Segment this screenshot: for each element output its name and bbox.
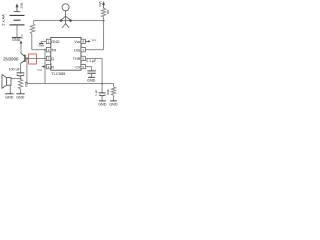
- pin 5 square: [81, 64, 85, 68]
- svg-text:100k: 100k: [106, 89, 110, 96]
- svg-text:Vcc: Vcc: [74, 40, 80, 44]
- node speaker junction: [20, 78, 22, 80]
- pin5 CV wire: [85, 66, 91, 68]
- ground pin1: [39, 43, 43, 45]
- svg-text:GND: GND: [38, 43, 44, 47]
- node TR junction: [44, 49, 46, 51]
- svg-text:GND: GND: [109, 102, 118, 106]
- resistor R1 (left timing resistor): [33, 21, 35, 24]
- bottom rail wire: [27, 83, 114, 85]
- svg-text:Vcc: Vcc: [91, 38, 97, 42]
- svg-text:0.1 µF: 0.1 µF: [86, 59, 96, 63]
- resistor R3 10k: [101, 8, 105, 16]
- svg-text:GND: GND: [5, 96, 14, 100]
- emitter wire up to Vcc arrow: [20, 43, 22, 53]
- node T junction top-right: [103, 20, 105, 22]
- wire base node down to rail: [26, 58, 28, 83]
- wire to speaker: [11, 78, 21, 80]
- svg-text:Q: Q: [51, 57, 54, 61]
- svg-text:R: R: [51, 65, 54, 69]
- svg-text:GND: GND: [51, 40, 60, 44]
- ground C2: [88, 76, 95, 78]
- svg-text:CV: CV: [75, 65, 81, 69]
- svg-text:GND: GND: [12, 38, 21, 42]
- ground R2: [16, 93, 24, 95]
- resistor R4 100k: [113, 84, 115, 87]
- wire R3 down to DIS: [103, 17, 105, 50]
- Vcc arrow top-right: [102, 1, 105, 8]
- svg-text:2N3906: 2N3906: [3, 56, 19, 61]
- pin6 THR wire: [85, 57, 102, 59]
- pin8 arrow to Vcc: [85, 40, 88, 42]
- node contact dot right: [69, 19, 72, 22]
- svg-text:Vcc: Vcc: [20, 34, 24, 40]
- node contact dot left: [60, 19, 63, 22]
- node base junction: [26, 57, 28, 59]
- svg-text:Vcc: Vcc: [37, 68, 43, 72]
- pin 1 square: [46, 39, 50, 43]
- speaker bottom wire to gnd: [9, 85, 11, 94]
- pin4 wire with Vcc arrow: [43, 66, 46, 68]
- svg-text:Vcc: Vcc: [19, 3, 23, 9]
- pin 8 square: [81, 39, 85, 43]
- pin7 DIS wire: [85, 49, 103, 51]
- svg-text:GND: GND: [87, 78, 96, 82]
- svg-text:1 µF: 1 µF: [94, 89, 98, 95]
- pin 4 square: [46, 64, 50, 68]
- speaker SP1: [2, 75, 11, 89]
- pin1 wire to gnd: [41, 40, 46, 42]
- top wire: [34, 20, 104, 22]
- svg-text:Vcc: Vcc: [98, 1, 102, 7]
- pin 3 square: [46, 56, 50, 60]
- ground battery: [12, 37, 21, 39]
- collector wire down: [20, 63, 22, 72]
- wire TR down to rail: [44, 50, 46, 84]
- ground speaker: [5, 93, 13, 95]
- ground R4: [110, 100, 117, 102]
- svg-text:GND: GND: [16, 96, 25, 100]
- pin 2 square: [46, 48, 50, 52]
- pin 7 square: [81, 48, 85, 52]
- pin3 wire Q output: [29, 57, 47, 59]
- resistor R2 (speaker shunt): [20, 78, 22, 81]
- pin2 wire: [32, 49, 47, 51]
- ground C3: [99, 100, 106, 102]
- svg-text:TLC555: TLC555: [51, 71, 66, 76]
- pin 6 square: [81, 56, 85, 60]
- node rail/THR junction: [101, 83, 103, 85]
- svg-text:GND: GND: [98, 102, 107, 106]
- highlight red box (missing resistor): [29, 54, 37, 64]
- wire battery to ground: [16, 25, 18, 38]
- svg-text:10k: 10k: [106, 9, 110, 14]
- person (stick figure on probe wire): [61, 4, 70, 28]
- svg-text:DIS: DIS: [74, 48, 81, 52]
- svg-text:THR: THR: [73, 57, 81, 61]
- svg-text:TR: TR: [51, 48, 56, 52]
- svg-text:2 x AA: 2 x AA: [1, 14, 6, 26]
- svg-text:100: 100: [24, 82, 28, 88]
- svg-text:100 uF: 100 uF: [9, 68, 21, 72]
- op IC U1 TLC555 box: [51, 37, 81, 70]
- battery B1 2xAA: [10, 15, 25, 25]
- Vcc arrow top-left: [14, 3, 21, 11]
